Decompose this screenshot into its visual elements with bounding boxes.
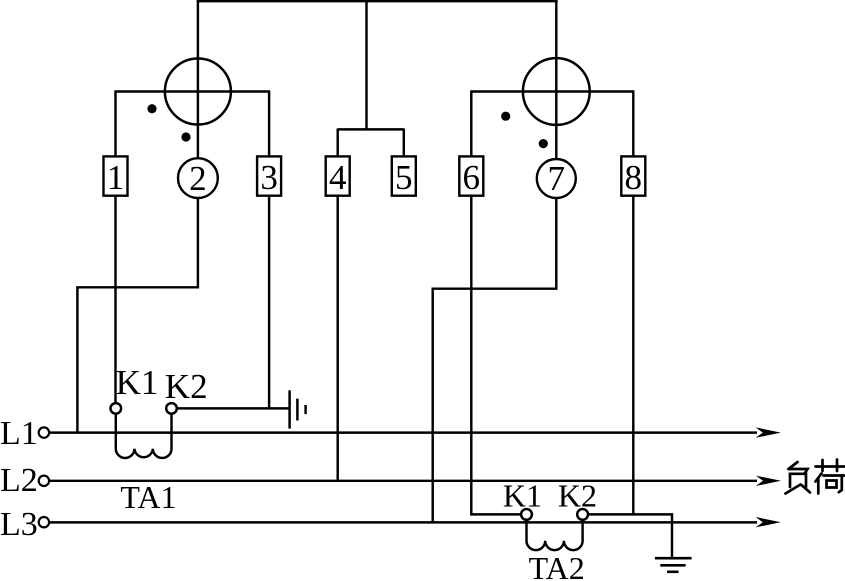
arrowhead L2	[756, 476, 781, 486]
label 负荷 (load) drawn as strokes	[786, 460, 845, 494]
switch contact K1 (TA1)	[111, 403, 122, 414]
svg-text:2: 2	[189, 159, 207, 198]
wire terminal 2 down-left to L1	[77, 198, 197, 433]
svg-text:3: 3	[260, 158, 278, 197]
wire down to terminal 3	[268, 90, 270, 156]
terminal box 1	[104, 156, 128, 195]
glyph 荷	[816, 465, 845, 468]
wire terminal 6 down to TA2 K1	[471, 196, 521, 515]
L3 source terminal	[39, 517, 49, 527]
arrowhead L3	[756, 517, 781, 527]
terminal box 8	[621, 156, 645, 195]
svg-text:K2: K2	[558, 477, 597, 513]
wire right voltage riser	[555, 0, 557, 159]
wire terminal 3 down	[268, 196, 270, 410]
L2 source terminal	[39, 476, 49, 486]
wire down to terminal 8	[632, 90, 634, 156]
earth bar 3	[304, 405, 307, 414]
terminal box 5	[392, 156, 416, 195]
meter element W2 (right circle)	[523, 58, 590, 125]
terminal box 3	[257, 156, 281, 195]
wire K2 to earth (left)	[177, 407, 290, 409]
L1 source terminal	[39, 427, 49, 437]
wire down to terminal 1	[114, 90, 116, 156]
svg-text:8: 8	[625, 158, 643, 197]
svg-text:7: 7	[548, 159, 566, 198]
terminal circle 2	[178, 158, 218, 198]
switch contact K2 (TA2)	[577, 509, 588, 520]
TA2 secondary winding	[527, 520, 583, 550]
arrowhead L1	[756, 427, 781, 437]
switch contact K2 (TA1)	[166, 403, 177, 414]
polarity dot W2 b	[539, 139, 548, 148]
svg-text:TA2: TA2	[529, 550, 585, 581]
line L2	[49, 480, 757, 482]
TA1 secondary winding	[116, 414, 172, 458]
line L3	[49, 521, 757, 523]
wire T leg to 5	[403, 129, 405, 157]
earth symbol (left, rotated): bar 1	[288, 390, 291, 428]
svg-text:1: 1	[107, 158, 125, 197]
earth bar 2	[296, 399, 299, 421]
wire top rail	[197, 0, 558, 2]
wire terminal 7 down-left to L3	[433, 198, 557, 522]
wire left voltage riser	[197, 0, 199, 158]
earth bar 3	[667, 570, 679, 573]
svg-text:L2: L2	[0, 462, 38, 499]
earth symbol (right): bar 1	[655, 557, 692, 560]
svg-text:L3: L3	[0, 506, 38, 543]
svg-text:TA1: TA1	[120, 479, 176, 515]
svg-text:5: 5	[395, 158, 413, 197]
meter element W1 (left circle)	[165, 59, 231, 125]
line L1	[49, 431, 757, 433]
earth bar 2	[660, 564, 685, 567]
wire middle riser	[365, 0, 367, 130]
switch contact K1 (TA2)	[521, 509, 532, 520]
wire terminal 8 down	[632, 196, 634, 516]
svg-text:L1: L1	[0, 415, 38, 452]
wire T-bar terminals 4-5	[338, 128, 404, 130]
wire down to terminal 6	[470, 90, 472, 156]
svg-text:K1: K1	[116, 363, 159, 402]
svg-text:K2: K2	[165, 367, 208, 406]
svg-text:6: 6	[463, 158, 481, 197]
terminal circle 7	[537, 159, 576, 198]
wire terminal 1 to K1	[114, 196, 116, 403]
glyph 负	[789, 462, 798, 469]
svg-text:4: 4	[329, 158, 347, 197]
polarity dot W1 a	[147, 104, 156, 113]
polarity dot W2 a	[501, 112, 510, 121]
wire K2 to earth (right)	[588, 514, 672, 557]
polarity dot W1 b	[181, 132, 190, 141]
terminal box 6	[459, 156, 483, 195]
wire horizontal through W2	[471, 90, 633, 92]
terminal box 4	[326, 156, 350, 195]
wire terminal 4 to L2	[336, 196, 338, 481]
svg-text:K1: K1	[503, 477, 542, 513]
wire T leg to 4	[336, 129, 338, 157]
wire horizontal through W1	[116, 90, 270, 92]
